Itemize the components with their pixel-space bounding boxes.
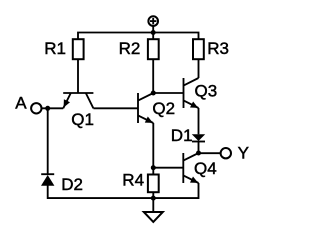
resistor R2 xyxy=(148,39,159,59)
svg-text:R3: R3 xyxy=(207,39,229,58)
wire: Q1 collector to Q2 base xyxy=(93,107,138,109)
svg-text:D2: D2 xyxy=(61,175,83,194)
wire: node to Q4 base xyxy=(153,167,183,169)
node: VCC rail / R2 junction xyxy=(151,30,156,35)
wire: node to output terminal Y xyxy=(199,152,221,154)
power supply VCC terminal xyxy=(148,16,158,32)
node: ground rail / R4 junction xyxy=(151,196,156,201)
svg-text:Q4: Q4 xyxy=(194,159,217,178)
node: Q2 emitter / R4 top / Q4 base junction xyxy=(151,165,156,170)
diode D1 xyxy=(192,134,205,153)
transistor Q2 (phase splitter) xyxy=(138,93,153,123)
svg-text:Q3: Q3 xyxy=(195,82,218,101)
svg-text:D1: D1 xyxy=(171,126,193,145)
wire: R4 bottom to ground rail xyxy=(152,192,154,198)
wire: rail to R2 top xyxy=(152,33,154,40)
resistor R3 xyxy=(193,39,204,59)
diode D2 (input clamp) xyxy=(41,174,54,186)
wire: input A to Q1 emitter xyxy=(42,107,64,109)
input terminal A xyxy=(31,103,41,113)
wire: R2 bottom to Q2 collector node xyxy=(152,59,154,93)
svg-text:A: A xyxy=(15,93,27,112)
transistor Q3 (upper output) xyxy=(184,78,199,108)
svg-text:R1: R1 xyxy=(44,39,66,58)
resistor R4 xyxy=(148,175,159,193)
wire: top VCC rail (with corners down to R1 and R3) xyxy=(78,33,199,40)
svg-text:R4: R4 xyxy=(122,171,144,190)
wire: Q2 emitter down to R4/Q4 node xyxy=(152,123,154,168)
ground symbol xyxy=(144,198,163,222)
svg-text:R2: R2 xyxy=(119,39,141,58)
svg-text:Y: Y xyxy=(238,143,249,162)
node: Q2 collector / R2 / Q3 base junction xyxy=(151,91,156,96)
resistor R1 xyxy=(73,39,84,59)
wire: input node down to D2 xyxy=(47,108,49,174)
wire: node down to R4 top xyxy=(152,168,154,175)
transistor Q1 (input, multi-emitter style, rotated) xyxy=(63,93,93,108)
wire: Q3 emitter to D1 anode xyxy=(198,108,200,134)
svg-text:Q1: Q1 xyxy=(71,110,94,129)
node: D1 cathode / Q4 collector / output Y junction xyxy=(196,151,201,156)
output terminal Y xyxy=(221,148,231,158)
wire: R3 bottom to Q3 collector xyxy=(198,59,200,78)
transistor Q4 (lower output) xyxy=(183,153,198,183)
wire: node to Q3 base xyxy=(153,92,183,94)
wire: R1 bottom to Q1 base xyxy=(77,59,79,93)
wire: bottom ground rail (D2 anode corner to Q4 emitter corner) xyxy=(48,183,199,198)
svg-text:Q2: Q2 xyxy=(152,99,175,118)
node: input A junction xyxy=(45,106,50,111)
